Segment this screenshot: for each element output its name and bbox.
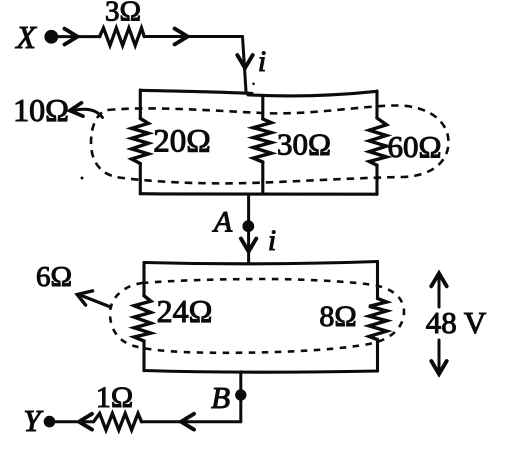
block 2 right edge wire with 8ohm stubs xyxy=(376,262,379,372)
voltage 48V arrow lower part xyxy=(438,340,441,371)
block 2 top rail wire xyxy=(144,262,378,264)
svg-text:60Ω: 60Ω xyxy=(387,129,441,164)
stray scan dot left xyxy=(81,177,84,180)
svg-text:A: A xyxy=(212,206,233,239)
current arrow toward Y xyxy=(181,414,194,430)
svg-text:20Ω: 20Ω xyxy=(153,124,211,160)
svg-text:48 V: 48 V xyxy=(426,305,487,340)
svg-text:i: i xyxy=(258,45,266,78)
resistor 30ohm zigzag xyxy=(253,119,271,162)
wire X to resistor 3ohm xyxy=(58,35,100,38)
resistor 3ohm zigzag xyxy=(100,28,145,46)
block 1 middle branch wire with 30ohm stubs xyxy=(261,96,264,194)
block 1 left edge wire with 20ohm stubs xyxy=(139,90,142,194)
arrow from loop 2 to 6ohm label xyxy=(80,295,111,307)
svg-text:8Ω: 8Ω xyxy=(319,300,356,333)
block 1 bottom rail wire xyxy=(140,192,377,196)
wire corner down into block 1 xyxy=(243,37,247,92)
wire node B to resistor 1ohm xyxy=(142,420,241,423)
terminal Y dot xyxy=(44,416,56,428)
svg-text:X: X xyxy=(14,19,37,55)
svg-text:1Ω: 1Ω xyxy=(96,381,133,414)
block 2 bottom rail wire xyxy=(144,371,378,373)
current arrow right after X xyxy=(65,29,78,45)
svg-text:Y: Y xyxy=(23,403,43,438)
dashed equivalence loop around block 1 xyxy=(91,105,449,183)
svg-text:24Ω: 24Ω xyxy=(157,293,213,329)
resistor 1ohm zigzag xyxy=(94,413,142,430)
resistor 60ohm zigzag xyxy=(369,118,386,165)
svg-text:3Ω: 3Ω xyxy=(105,0,141,28)
svg-text:10Ω: 10Ω xyxy=(13,92,69,128)
node A dot xyxy=(242,220,254,232)
node B dot xyxy=(235,389,246,400)
current arrow at node A xyxy=(241,239,256,252)
resistor 8ohm zigzag xyxy=(369,299,387,340)
wire resistor 1ohm to Y xyxy=(56,420,94,423)
dashed equivalence loop around block 2 xyxy=(110,279,404,353)
current arrow down into block 1 xyxy=(237,55,252,68)
stray scan dot near junction xyxy=(252,83,255,86)
block 2 left edge wire with 24ohm stubs xyxy=(142,263,145,371)
block 1 top rail wire xyxy=(140,90,377,96)
arrow from loop 1 to 10ohm label xyxy=(74,109,103,117)
svg-text:30Ω: 30Ω xyxy=(277,127,331,162)
current arrow before Y xyxy=(79,414,92,430)
resistor 20ohm zigzag xyxy=(132,119,149,164)
resistor 24ohm zigzag xyxy=(134,296,151,341)
voltage 48V arrow upper part xyxy=(438,276,441,307)
wire block1 to block2 through node A xyxy=(247,194,250,263)
svg-text:i: i xyxy=(268,224,276,257)
current arrow on top wire xyxy=(175,29,188,45)
svg-text:B: B xyxy=(211,380,230,415)
svg-text:6Ω: 6Ω xyxy=(36,261,72,293)
wire block2 to node B xyxy=(239,372,242,422)
terminal X dot xyxy=(44,30,58,44)
block 1 right edge wire with 60ohm stubs xyxy=(375,91,378,194)
wire resistor 3ohm to corner xyxy=(144,35,242,38)
